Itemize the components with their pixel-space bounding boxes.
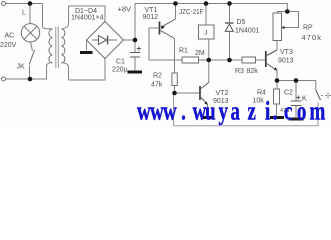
svg-text:J: J bbox=[204, 30, 207, 37]
relay top lead bbox=[205, 4, 207, 26]
svg-text:VT1: VT1 bbox=[145, 7, 158, 14]
VT3 emitter arrowhead bbox=[274, 67, 278, 71]
svg-text:470k: 470k bbox=[302, 33, 322, 42]
rail dot D5 bbox=[227, 1, 232, 6]
transformer core bbox=[56, 27, 59, 69]
wire secondary top lead riser bbox=[62, 6, 69, 29]
RP top feed from rail bbox=[277, 12, 287, 14]
node L dot bbox=[28, 1, 33, 6]
svg-text:RP: RP bbox=[303, 25, 313, 32]
svg-text:2M: 2M bbox=[195, 50, 205, 57]
ground bar VT2 emitter bbox=[202, 116, 213, 119]
svg-text:C2: C2 bbox=[284, 90, 293, 97]
resistor R4 10k bbox=[274, 89, 280, 104]
wire bridge + output bbox=[124, 39, 136, 41]
relay J coil box bbox=[199, 25, 215, 39]
svg-text:220µ: 220µ bbox=[112, 67, 128, 74]
relay contact K bbox=[315, 81, 317, 91]
RP bottom lead to VT3 collector bbox=[276, 41, 278, 51]
VT2 emitter stem bbox=[207, 105, 209, 116]
diode D5 leads bbox=[229, 4, 231, 23]
transistor VT1 (9012 PNP) bbox=[159, 22, 161, 35]
svg-text:VT3: VT3 bbox=[280, 49, 293, 56]
ground bar R4 bbox=[270, 116, 284, 119]
svg-text:+8V: +8V bbox=[118, 5, 132, 14]
VT3 emitter stem bbox=[276, 71, 278, 81]
C2 plus sign bbox=[296, 96, 300, 100]
relay bottom lead / VT2 collector column bbox=[208, 39, 210, 83]
rail corner dot RP bbox=[285, 9, 290, 14]
VT1 collector column through R2 bbox=[174, 39, 176, 74]
wire top-left horizontal bbox=[6, 3, 43, 5]
switch JK fixed contact / wire to rail bbox=[29, 66, 31, 78]
resistor R3 82k bbox=[242, 57, 256, 63]
rail dot relay bbox=[204, 1, 209, 6]
VT2 emitter arrowhead bbox=[204, 101, 208, 105]
ground bar bridge bbox=[80, 51, 93, 54]
capacitor C2 plates bbox=[291, 101, 302, 106]
terminal N (bottom-left input circle) bbox=[2, 77, 6, 81]
capacitor C1 plates bbox=[130, 53, 140, 58]
svg-text:JZC-21F: JZC-21F bbox=[179, 9, 204, 16]
svg-text:9013: 9013 bbox=[278, 58, 294, 65]
diode D5 symbol (pointing up) bbox=[225, 22, 234, 24]
C1 plus sign bbox=[137, 46, 141, 50]
VT1 emitter riser to +8V rail bbox=[175, 4, 177, 20]
C2 top node dot bbox=[294, 78, 299, 83]
svg-text:1N4001: 1N4001 bbox=[235, 28, 260, 35]
svg-text:L: L bbox=[22, 10, 26, 17]
transformer B secondary winding bbox=[62, 29, 65, 63]
terminal L (top-left input circle) bbox=[2, 2, 6, 6]
svg-text:47k: 47k bbox=[151, 82, 163, 89]
VT2 base node dot bbox=[172, 91, 177, 96]
lamp ZD (circle with X) bbox=[21, 24, 39, 42]
wire lamp bottom lead bbox=[31, 42, 33, 51]
svg-text:82k: 82k bbox=[247, 68, 259, 75]
transistor VT3 (9013 NPN) bbox=[265, 51, 267, 67]
VT3 emitter node dot bbox=[275, 78, 280, 83]
RP wiper arrowhead bbox=[282, 26, 285, 30]
svg-text:R4: R4 bbox=[257, 90, 266, 97]
wire secondary bottom rail to bridge bbox=[69, 59, 105, 81]
wire top DC feed to bridge bbox=[69, 6, 105, 22]
bridge rectifier D1-D4 diamond bbox=[87, 22, 124, 59]
ground (bridge minus) bbox=[86, 40, 88, 51]
svg-text:9012: 9012 bbox=[143, 14, 159, 21]
K linkage dashes bbox=[321, 95, 331, 97]
svg-text:1N4001×4: 1N4001×4 bbox=[71, 15, 104, 22]
transistor VT2 (9013 NPN) bbox=[199, 86, 201, 100]
ground bar C1 bbox=[128, 71, 143, 74]
wire transformer primary top lead bbox=[43, 4, 53, 29]
node +8V/C1 dot bbox=[133, 38, 138, 43]
net dot relay/VT2 bbox=[207, 58, 212, 63]
svg-text:D5: D5 bbox=[237, 19, 246, 26]
wire emitter node to K bbox=[277, 80, 316, 82]
capacitor C2 leads bbox=[295, 81, 297, 101]
diode symbol inside bridge bbox=[92, 39, 117, 41]
rail dot VT1 emitter bbox=[173, 1, 178, 6]
wire transformer primary bottom lead bbox=[47, 62, 53, 79]
wire net y60 middle bbox=[199, 59, 243, 61]
resistor R1 2M bbox=[182, 57, 199, 63]
net dot D5 anode bbox=[227, 58, 232, 63]
svg-text:www.wuyazi.com: www.wuyazi.com bbox=[137, 97, 325, 126]
ground bar C2 bbox=[289, 118, 304, 121]
wire VT2 base node down to bottom rail bbox=[174, 95, 319, 126]
svg-text:R1: R1 bbox=[179, 48, 188, 55]
capacitor C1 leads bbox=[134, 40, 136, 52]
wire lamp drop from node L bbox=[29, 6, 31, 24]
wire base net y60 bbox=[149, 59, 182, 61]
switch JK blade bbox=[29, 50, 34, 64]
VT1 base riser bbox=[148, 28, 150, 60]
svg-text:R3: R3 bbox=[235, 68, 244, 75]
svg-text:220V: 220V bbox=[0, 42, 17, 49]
svg-text:R2: R2 bbox=[153, 73, 162, 80]
resistor R2 47k bbox=[172, 73, 177, 86]
wire net y60 to VT3 base bbox=[256, 59, 266, 61]
svg-text:AC: AC bbox=[5, 33, 15, 40]
node N dot bbox=[28, 77, 33, 82]
transformer B primary winding bbox=[49, 29, 52, 63]
RP wiper loop bbox=[284, 12, 299, 28]
svg-text:C1: C1 bbox=[116, 59, 125, 66]
VT1 emitter arrowhead (PNP) bbox=[161, 26, 165, 29]
svg-text:JK: JK bbox=[17, 64, 26, 71]
wire AC bottom rail bbox=[6, 78, 47, 80]
wire +8V riser and top rail bbox=[135, 4, 287, 41]
potentiometer RP 470k box bbox=[273, 13, 282, 41]
wire secondary bottom lead bbox=[62, 62, 69, 80]
